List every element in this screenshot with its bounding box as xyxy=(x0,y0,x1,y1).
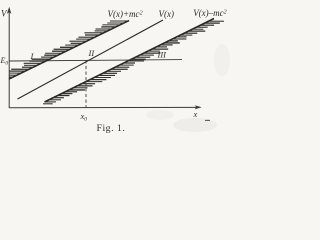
stray mark artifact xyxy=(205,119,210,121)
hatching below V(x)-mc^2 xyxy=(43,21,224,104)
svg-text:V(x)+mc2: V(x)+mc2 xyxy=(108,9,143,19)
svg-text:V(x): V(x) xyxy=(159,9,175,19)
curve V(x)-mc^2 xyxy=(45,19,215,103)
x-axis xyxy=(9,106,198,108)
curve V(x) xyxy=(18,20,164,99)
dashed vertical line at x0 xyxy=(85,60,87,107)
curve V(x)+mc^2 xyxy=(9,21,129,80)
svg-text:V(x)–mc2: V(x)–mc2 xyxy=(193,8,226,18)
svg-text:x: x xyxy=(193,109,198,119)
x-axis arrowhead xyxy=(195,105,202,109)
y-axis (V axis) xyxy=(8,10,10,108)
svg-text:II: II xyxy=(88,48,96,58)
svg-text:Fig. 1.: Fig. 1. xyxy=(97,123,126,134)
hatching above V(x)+mc^2 xyxy=(9,21,128,77)
scan blotches xyxy=(173,118,217,132)
energy level line E0 xyxy=(9,60,182,61)
paper background xyxy=(0,0,231,136)
svg-text:III: III xyxy=(157,50,168,60)
y-axis arrowhead xyxy=(7,7,11,14)
